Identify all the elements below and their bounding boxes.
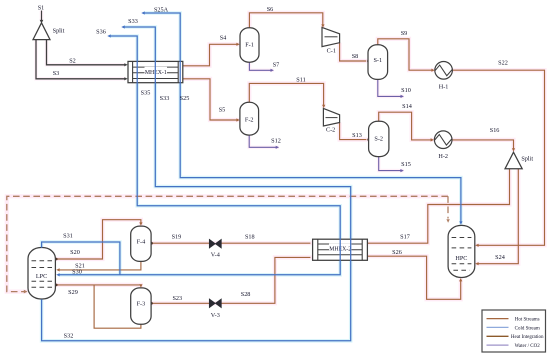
- svg-text:S-1: S-1: [373, 57, 382, 64]
- svg-text:F-3: F-3: [137, 301, 146, 308]
- svg-text:Hot Streams: Hot Streams: [515, 318, 540, 323]
- svg-text:S33: S33: [128, 18, 138, 25]
- svg-text:HPC: HPC: [455, 255, 467, 262]
- svg-text:S24: S24: [495, 254, 505, 261]
- svg-text:S31: S31: [63, 233, 73, 240]
- svg-text:H-1: H-1: [439, 84, 449, 91]
- svg-text:S9: S9: [401, 30, 408, 37]
- svg-text:S33: S33: [160, 95, 170, 102]
- svg-text:Cold Stream: Cold Stream: [515, 326, 540, 331]
- svg-text:S32: S32: [64, 332, 74, 339]
- svg-text:S-2: S-2: [374, 136, 383, 143]
- svg-text:S14: S14: [402, 103, 412, 110]
- svg-text:S7: S7: [273, 62, 280, 69]
- svg-text:S25A: S25A: [154, 7, 169, 14]
- svg-text:Water / CO2: Water / CO2: [515, 344, 541, 349]
- svg-text:S25: S25: [180, 95, 190, 102]
- svg-text:S8: S8: [352, 53, 359, 60]
- svg-text:S3: S3: [53, 70, 60, 77]
- svg-text:LPC: LPC: [36, 273, 47, 280]
- svg-text:C-2: C-2: [326, 126, 335, 133]
- svg-text:S35: S35: [141, 90, 151, 97]
- svg-text:Split: Split: [53, 28, 65, 35]
- svg-text:S4: S4: [220, 35, 227, 42]
- svg-text:S10: S10: [401, 87, 411, 94]
- svg-text:S22: S22: [498, 60, 508, 67]
- svg-text:S36: S36: [96, 29, 106, 36]
- svg-text:S29: S29: [68, 289, 78, 296]
- svg-text:F-2: F-2: [245, 117, 254, 124]
- svg-text:S23: S23: [172, 295, 182, 302]
- svg-text:V-4: V-4: [211, 252, 220, 259]
- svg-text:S1: S1: [38, 5, 45, 12]
- svg-text:S6: S6: [267, 6, 274, 13]
- svg-text:F-1: F-1: [245, 42, 254, 49]
- svg-text:S12: S12: [271, 138, 281, 145]
- svg-text:S26: S26: [392, 249, 402, 256]
- svg-text:Heat Integration: Heat Integration: [511, 335, 544, 340]
- svg-text:S30: S30: [72, 269, 82, 276]
- svg-text:S18: S18: [245, 234, 255, 241]
- svg-text:H-2: H-2: [438, 153, 448, 160]
- svg-text:S17: S17: [400, 234, 410, 241]
- svg-text:V-3: V-3: [211, 312, 220, 319]
- svg-text:S15: S15: [401, 161, 411, 168]
- svg-text:S11: S11: [296, 77, 305, 84]
- svg-text:Split: Split: [521, 155, 533, 162]
- svg-text:S19: S19: [172, 234, 182, 241]
- svg-text:S20: S20: [70, 249, 80, 256]
- svg-text:S2: S2: [69, 58, 76, 65]
- svg-text:S13: S13: [352, 132, 362, 139]
- svg-text:C-1: C-1: [327, 47, 336, 54]
- svg-text:S5: S5: [219, 107, 226, 114]
- svg-text:S16: S16: [490, 127, 500, 134]
- svg-text:S28: S28: [241, 291, 251, 298]
- svg-text:F-4: F-4: [137, 239, 146, 246]
